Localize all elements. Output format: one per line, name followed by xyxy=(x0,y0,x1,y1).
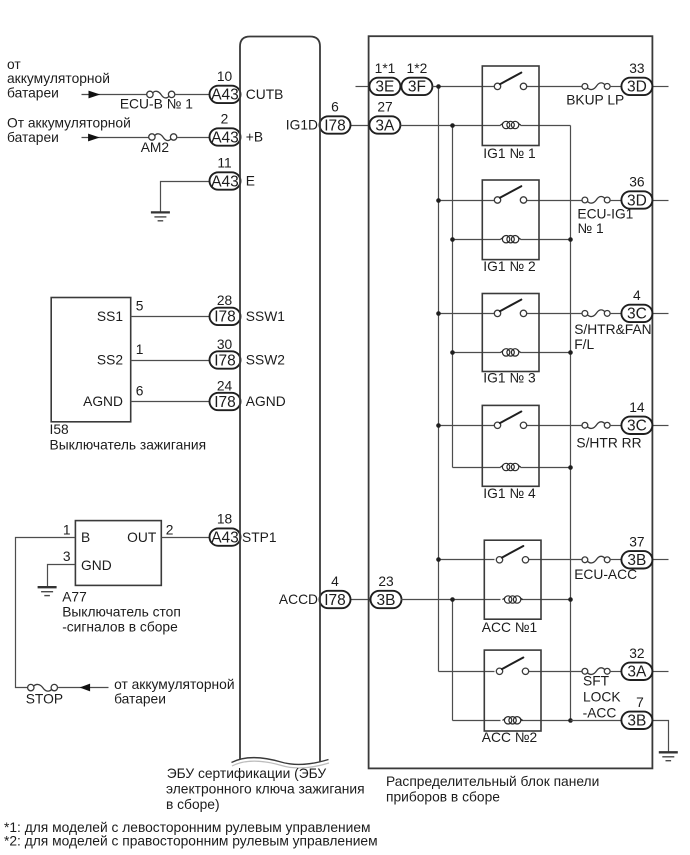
relay ACC №2 coil xyxy=(502,717,522,724)
svg-text:10: 10 xyxy=(217,69,233,84)
wire to relay ACC №1 switch contact xyxy=(439,559,495,561)
svg-text:IG1D: IG1D xyxy=(286,118,318,133)
svg-text:STOP: STOP xyxy=(26,691,63,706)
wire stub out of junction block (pin 37) xyxy=(653,559,669,561)
svg-text:32: 32 xyxy=(629,646,644,661)
svg-text:28: 28 xyxy=(217,293,233,308)
svg-text:SSW2: SSW2 xyxy=(246,353,285,368)
junction dot ACC1 switch xyxy=(436,557,441,562)
junction dot IG1-2 coil return xyxy=(568,237,573,242)
fuse ECU-B No 1 xyxy=(147,91,175,98)
wire fuse SFT LOCK -ACC to connector xyxy=(610,671,623,673)
svg-text:IG1 № 2: IG1 № 2 xyxy=(483,259,535,274)
svg-text:ACC №2: ACC №2 xyxy=(482,730,537,745)
svg-text:3C: 3C xyxy=(627,306,647,323)
svg-text:IG1 № 4: IG1 № 4 xyxy=(483,486,536,501)
wire from relay IG1 № 4 switch contact to fuse xyxy=(527,425,585,427)
svg-text:6: 6 xyxy=(331,100,339,115)
wire to relay IG1 № 2 coil xyxy=(453,239,501,241)
svg-text:I78: I78 xyxy=(214,309,236,326)
svg-text:23: 23 xyxy=(378,574,394,589)
wire fuse ECU-ACC to connector xyxy=(610,559,623,561)
connector A43 pin 10 xyxy=(210,86,241,104)
junction dot IG1-3 coil return xyxy=(568,350,573,355)
relay IG1 № 4 switch contacts xyxy=(494,412,526,429)
junction dot IG1-3 switch xyxy=(436,311,441,316)
svg-text:3C: 3C xyxy=(627,418,647,435)
connector A43 pin 11 xyxy=(210,172,241,190)
junction dot ACC1 coil feed xyxy=(450,597,455,602)
relay ACC №2 switch contacts xyxy=(496,658,528,675)
svg-text:3F: 3F xyxy=(408,79,426,96)
junction dot IG1-4 switch xyxy=(436,423,441,428)
svg-text:A43: A43 xyxy=(211,173,239,190)
junction dot 3F feed xyxy=(436,84,441,89)
wire stub out of junction block (pin 4) xyxy=(653,313,669,315)
svg-text:от: от xyxy=(7,57,21,72)
value label fuse S/HTR&FAN F/L xyxy=(574,322,651,352)
wire bus: switched battery feed vertical xyxy=(438,87,440,672)
relay IG1 № 2 box xyxy=(482,180,539,260)
wire A77 GND to ground xyxy=(48,565,76,588)
wire to relay ACC №1 coil xyxy=(401,599,501,601)
connector I78 pin 4 xyxy=(320,591,351,609)
fuse STOP xyxy=(28,684,58,691)
svg-text:-сигналов в сборе: -сигналов в сборе xyxy=(62,620,178,635)
svg-text:1*2: 1*2 xyxy=(407,61,428,76)
value label fuse BKUP LP xyxy=(566,93,624,108)
ground (A77 GND) xyxy=(38,587,57,595)
svg-text:аккумуляторной: аккумуляторной xyxy=(7,71,110,86)
svg-text:AM2: AM2 xyxy=(141,140,169,155)
svg-text:Распределительный блок панели: Распределительный блок панели xyxy=(386,774,599,789)
svg-text:B: B xyxy=(81,530,90,545)
wire stub out of junction block (pin 33) xyxy=(653,86,669,88)
wire fuse BKUP LP to connector xyxy=(610,86,623,88)
wire to relay ACC №2 coil xyxy=(453,720,501,722)
svg-text:I78: I78 xyxy=(214,394,236,411)
connector 3B pin 23 xyxy=(371,591,402,609)
wire to relay IG1 № 1 coil xyxy=(401,125,501,127)
reference A77 label xyxy=(62,590,181,635)
relay IG1 № 2 coil xyxy=(500,236,520,243)
svg-text:ECU-IG1: ECU-IG1 xyxy=(577,207,633,222)
ground (E pin) xyxy=(151,212,170,220)
svg-text:4: 4 xyxy=(633,288,641,303)
ground (coil return) xyxy=(659,752,678,760)
relay IG1 № 3 box xyxy=(482,294,539,372)
junction dot IG1-4 coil return xyxy=(568,465,573,470)
svg-text:батареи: батареи xyxy=(114,692,166,707)
svg-text:1: 1 xyxy=(136,342,144,357)
svg-text:SS1: SS1 xyxy=(97,309,123,324)
wire I58 AGND to connector I78 xyxy=(131,401,211,403)
connector 3D pin 33 xyxy=(621,78,652,96)
fuse S/HTR&FAN F/L xyxy=(582,310,610,317)
svg-text:Выключатель зажигания: Выключатель зажигания xyxy=(50,437,207,452)
connector 3E xyxy=(369,78,400,96)
svg-text:27: 27 xyxy=(377,100,392,115)
junction dot coil return to pin 7 xyxy=(568,718,573,723)
ECU block break wavy line xyxy=(232,758,329,765)
relay ACC №1 coil xyxy=(502,596,522,603)
node: from battery (+B feed) text xyxy=(7,116,131,145)
svg-text:2: 2 xyxy=(166,523,174,538)
svg-text:A43: A43 xyxy=(211,529,239,546)
node: from battery (CUTB feed) text xyxy=(7,57,110,101)
svg-text:SSW1: SSW1 xyxy=(246,309,285,324)
relay IG1 № 3 switch contacts xyxy=(494,300,526,317)
wire I58 SS2 to connector I78 xyxy=(131,360,211,362)
arrow battery feed CUTB xyxy=(89,91,101,99)
svg-text:I78: I78 xyxy=(324,592,346,609)
wire from relay IG1 № 3 switch contact to fuse xyxy=(527,313,585,315)
connector 3A pin 32 xyxy=(621,663,652,681)
relay IG1 № 4 coil xyxy=(500,463,520,470)
svg-text:IG1 № 1: IG1 № 1 xyxy=(483,146,535,161)
wire stub out of junction block (pin 14) xyxy=(653,425,669,427)
svg-text:ACC №1: ACC №1 xyxy=(482,620,537,635)
wire stub out of junction block (pin 32) xyxy=(653,671,669,673)
wire from relay IG1 № 1 coil to return bus xyxy=(521,125,571,127)
relay IG1 № 1 switch contacts xyxy=(494,73,526,90)
connector A43 pin 2 xyxy=(210,128,241,146)
wire to relay ACC №2 switch contact xyxy=(439,671,495,673)
svg-text:2: 2 xyxy=(221,112,229,127)
relay ACC №1 switch contacts xyxy=(496,546,528,563)
svg-text:E: E xyxy=(246,174,255,189)
svg-text:ACCD: ACCD xyxy=(279,592,318,607)
svg-text:S/HTR&FAN: S/HTR&FAN xyxy=(574,322,651,337)
svg-text:ECU-ACC: ECU-ACC xyxy=(574,567,637,582)
junction dot IG1-2 switch xyxy=(436,198,441,203)
svg-text:SS2: SS2 xyxy=(97,353,123,368)
wire fuse ECU-B No1 to connector A43 xyxy=(175,94,211,96)
svg-text:Выключатель стоп: Выключатель стоп xyxy=(62,605,181,620)
wire bus: coil return vertical xyxy=(570,126,572,721)
svg-text:батареи: батареи xyxy=(7,85,59,100)
wire from relay ACC №2 coil to return bus xyxy=(521,720,571,722)
svg-text:От аккумуляторной: От аккумуляторной xyxy=(7,116,131,131)
svg-text:AGND: AGND xyxy=(83,394,123,409)
ignition switch I58 box xyxy=(51,298,131,422)
fuse AM2 xyxy=(149,134,177,141)
svg-text:7: 7 xyxy=(636,695,644,710)
svg-text:LOCK: LOCK xyxy=(583,689,621,704)
svg-text:электронного ключа зажигания: электронного ключа зажигания xyxy=(166,782,365,797)
wire I58 SS1 to connector I78 xyxy=(131,316,211,318)
relay IG1 № 1 box xyxy=(482,66,539,146)
connector 3F xyxy=(401,78,432,96)
svg-text:36: 36 xyxy=(629,175,645,190)
junction dot ACC1 coil return xyxy=(568,597,573,602)
connector 3A pin 27 xyxy=(369,116,400,134)
relay IG1 № 3 coil xyxy=(500,349,520,356)
connector 3B pin 7 xyxy=(621,712,652,730)
fuse ECU-IG1 No 1 xyxy=(582,196,610,203)
wire bus: IG1 coil feed vertical xyxy=(452,126,454,468)
ECU block label xyxy=(166,766,365,812)
svg-text:3: 3 xyxy=(63,549,71,564)
junction block label xyxy=(386,774,599,805)
junction dot IG1-3 coil xyxy=(450,350,455,355)
fuse ECU-ACC xyxy=(582,556,610,563)
wire E pin to ground xyxy=(161,182,211,213)
svg-text:ЭБУ сертификации (ЭБУ: ЭБУ сертификации (ЭБУ xyxy=(167,766,327,781)
svg-text:37: 37 xyxy=(629,534,644,549)
svg-text:SFT: SFT xyxy=(583,673,610,688)
wire from relay ACC №1 coil to return bus xyxy=(521,599,571,601)
svg-text:3A: 3A xyxy=(375,117,395,134)
svg-text:OUT: OUT xyxy=(127,530,157,545)
wire stub to pill 3E xyxy=(356,86,371,88)
wire A77 OUT to connector A43 xyxy=(162,537,211,539)
stop light switch A77 box xyxy=(75,521,161,586)
value label fuse S/HTR RR xyxy=(576,436,641,451)
wire STOP fuse to battery xyxy=(58,687,109,689)
wire bus: ACC coil feed vertical xyxy=(452,600,454,721)
svg-text:BKUP LP: BKUP LP xyxy=(566,93,624,108)
svg-text:в сборе): в сборе) xyxy=(166,797,220,812)
fuse SFT LOCK -ACC xyxy=(582,668,610,675)
svg-text:приборов в сборе: приборов в сборе xyxy=(386,790,500,805)
svg-text:A43: A43 xyxy=(211,87,239,104)
value label fuse SFT LOCK -ACC xyxy=(583,673,622,720)
svg-text:A77: A77 xyxy=(62,590,87,605)
fuse S/HTR RR xyxy=(582,422,610,429)
wire to relay IG1 № 3 switch contact xyxy=(439,313,495,315)
svg-text:3B: 3B xyxy=(627,713,646,730)
wire from relay ACC №1 switch contact to fuse xyxy=(527,559,585,561)
wire to relay IG1 № 1 switch contact xyxy=(433,86,495,88)
svg-text:1*1: 1*1 xyxy=(375,61,396,76)
svg-text:№ 1: № 1 xyxy=(577,221,603,236)
wire from relay IG1 № 3 coil to return bus xyxy=(521,352,571,354)
svg-text:CUTB: CUTB xyxy=(246,87,284,102)
wire to relay IG1 № 3 coil xyxy=(453,352,501,354)
svg-text:3E: 3E xyxy=(375,79,394,96)
connector I78 pin 6 xyxy=(320,116,351,134)
instrument panel junction block box xyxy=(369,36,653,768)
svg-text:*2: для моделей с правосторонн: *2: для моделей с правосторонним рулевым… xyxy=(4,834,378,849)
junction dot 3A coil feed xyxy=(450,123,455,128)
svg-text:IG1 № 3: IG1 № 3 xyxy=(483,371,536,386)
svg-text:3B: 3B xyxy=(377,592,396,609)
connector 3C pin 14 xyxy=(621,417,652,435)
svg-text:11: 11 xyxy=(217,156,231,171)
wire coil return to pin 7 and ground xyxy=(571,721,669,753)
wire battery feed to fuse AM2 xyxy=(82,137,150,139)
connector A43 pin 18 xyxy=(210,528,241,546)
svg-text:6: 6 xyxy=(136,384,144,399)
wire ACCD to pill 3B xyxy=(351,599,372,601)
connector I78 pin 30 xyxy=(210,351,241,369)
connector I78 pin 28 xyxy=(210,308,241,326)
svg-text:33: 33 xyxy=(629,61,645,76)
wire from relay IG1 № 4 coil to return bus xyxy=(521,467,571,469)
wire IG1D to pill 3A xyxy=(351,125,371,127)
svg-text:A43: A43 xyxy=(211,129,239,146)
wire from relay IG1 № 2 coil to return bus xyxy=(521,239,571,241)
wire from relay ACC №2 switch contact to fuse xyxy=(527,671,585,673)
value label fuse ECU-ACC xyxy=(574,567,637,582)
wire from relay IG1 № 2 switch contact to fuse xyxy=(527,200,585,202)
svg-text:I58: I58 xyxy=(50,422,70,437)
svg-text:GND: GND xyxy=(81,558,112,573)
wire from relay IG1 № 1 switch contact to fuse xyxy=(527,86,585,88)
svg-text:30: 30 xyxy=(217,337,233,352)
svg-text:I78: I78 xyxy=(324,117,346,134)
relay IG1 № 2 switch contacts xyxy=(494,186,526,203)
junction dot IG1-2 coil xyxy=(450,237,455,242)
wire to relay IG1 № 4 coil xyxy=(453,467,501,469)
svg-text:+B: +B xyxy=(246,130,263,145)
wire fuse ECU-IG1 No 1 to connector xyxy=(610,200,623,202)
svg-text:от аккумуляторной: от аккумуляторной xyxy=(114,677,234,692)
svg-text:S/HTR RR: S/HTR RR xyxy=(576,436,641,451)
node: from battery (STOP) text xyxy=(114,677,234,706)
svg-text:5: 5 xyxy=(136,299,144,314)
fuse BKUP LP xyxy=(582,83,610,90)
connector 3C pin 4 xyxy=(621,305,652,323)
relay ACC №2 box xyxy=(484,650,541,731)
relay ACC №1 box xyxy=(484,540,541,619)
reference I58 label xyxy=(50,422,207,452)
wire A77 B to STOP fuse xyxy=(16,538,76,688)
svg-text:3A: 3A xyxy=(627,664,647,681)
svg-text:-ACC: -ACC xyxy=(583,705,617,720)
wire fuse AM2 to connector A43 xyxy=(177,137,211,139)
arrow battery feed +B xyxy=(88,134,100,142)
svg-text:3D: 3D xyxy=(627,79,647,96)
relay IG1 № 4 box xyxy=(482,405,539,486)
connector I78 pin 24 xyxy=(210,393,241,411)
connector 3D pin 36 xyxy=(621,191,652,209)
svg-text:батареи: батареи xyxy=(7,130,59,145)
svg-text:24: 24 xyxy=(217,378,233,393)
svg-text:1: 1 xyxy=(63,523,71,538)
wire fuse S/HTR&FAN F/L to connector xyxy=(610,313,623,315)
wire to relay IG1 № 4 switch contact xyxy=(439,425,495,427)
wire fuse S/HTR RR to connector xyxy=(610,425,623,427)
svg-text:4: 4 xyxy=(331,574,339,589)
connector 3B pin 37 xyxy=(621,551,652,569)
relay IG1 № 1 coil xyxy=(500,121,520,128)
svg-text:AGND: AGND xyxy=(246,394,286,409)
arrow from battery (STOP) xyxy=(80,684,91,692)
wire stub out of junction block (pin 36) xyxy=(653,200,669,202)
wire battery feed to fuse ECU-B No1 xyxy=(82,94,148,96)
wire to relay IG1 № 2 switch contact xyxy=(439,200,495,202)
value label fuse ECU-IG1 No 1 xyxy=(577,207,633,236)
svg-text:STP1: STP1 xyxy=(242,530,277,545)
svg-text:14: 14 xyxy=(629,400,645,415)
svg-text:I78: I78 xyxy=(214,352,236,369)
svg-text:F/L: F/L xyxy=(574,337,594,352)
svg-text:18: 18 xyxy=(217,512,233,527)
ECU block outline (certification ECU) xyxy=(240,37,320,763)
svg-text:ECU-B № 1: ECU-B № 1 xyxy=(120,97,193,112)
